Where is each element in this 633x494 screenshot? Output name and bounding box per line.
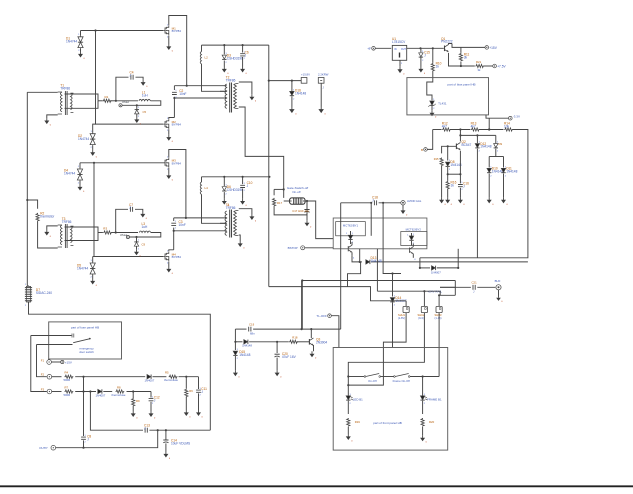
- svg-text:1N4007: 1N4007: [431, 271, 441, 275]
- svg-text:1N4007: 1N4007: [145, 379, 155, 383]
- svg-text:F2: F2: [41, 373, 45, 377]
- svg-text:R18: R18: [292, 336, 298, 340]
- svg-text:part of bias panel HB: part of bias panel HB: [447, 83, 475, 87]
- svg-text:1N4148: 1N4148: [371, 259, 382, 263]
- svg-text:BYP84: BYP84: [172, 255, 182, 259]
- svg-text:C9: C9: [142, 242, 146, 246]
- svg-text:1N4744: 1N4744: [78, 137, 89, 141]
- svg-text:1N4148: 1N4148: [242, 344, 252, 348]
- svg-text:BC547: BC547: [462, 143, 472, 147]
- svg-text:MCT62/BY1: MCT62/BY1: [343, 224, 359, 228]
- svg-text:L4: L4: [205, 186, 209, 190]
- svg-text:LED B1: LED B1: [353, 398, 363, 402]
- svg-text:On-off: On-off: [292, 190, 300, 194]
- svg-text:1N4744: 1N4744: [66, 39, 77, 43]
- svg-text:C21: C21: [472, 281, 478, 285]
- svg-text:(1-8V): (1-8V): [398, 316, 405, 320]
- svg-text:R7: R7: [65, 385, 69, 389]
- svg-text:F1: F1: [41, 359, 45, 363]
- svg-text:+F: +F: [367, 47, 371, 51]
- svg-text:1N4148: 1N4148: [480, 145, 491, 149]
- svg-text:R9: R9: [136, 399, 140, 403]
- svg-text:1N4148: 1N4148: [506, 169, 517, 173]
- svg-text:10uF VDLMS: 10uF VDLMS: [171, 441, 190, 445]
- svg-text:47uH: 47uH: [122, 100, 129, 104]
- svg-text:BYP84: BYP84: [172, 29, 182, 33]
- svg-text:TRF86: TRF86: [226, 206, 236, 210]
- svg-text:OUT: OUT: [401, 49, 406, 51]
- svg-text:CSHD3196: CSHD3196: [227, 188, 243, 192]
- svg-text:+15V: +15V: [489, 46, 497, 50]
- svg-text:R5: R5: [165, 371, 169, 375]
- svg-text:C19: C19: [249, 323, 255, 327]
- svg-text:TL-OFF: TL-OFF: [316, 314, 327, 318]
- svg-text:2N3904: 2N3904: [316, 340, 327, 344]
- svg-text:+15V: +15V: [65, 360, 72, 364]
- svg-text:R4: R4: [65, 371, 69, 375]
- svg-text:Frame On-Off: Frame On-Off: [393, 379, 410, 383]
- svg-text:BYP84: BYP84: [172, 123, 182, 127]
- svg-text:On-Off: On-Off: [368, 379, 377, 383]
- svg-text:1N4744: 1N4744: [64, 171, 75, 175]
- svg-text:part of front panel HB: part of front panel HB: [373, 421, 402, 425]
- svg-text:R20: R20: [429, 420, 435, 424]
- svg-text:AVDD GAL: AVDD GAL: [407, 199, 422, 203]
- svg-text:IN: IN: [394, 49, 397, 51]
- svg-text:500R: 500R: [64, 393, 71, 397]
- svg-text:BSTOP: BSTOP: [288, 246, 298, 250]
- svg-text:R21: R21: [476, 60, 482, 64]
- svg-text:F3: F3: [41, 387, 45, 391]
- svg-text:C17 HUF-AG: C17 HUF-AG: [292, 209, 309, 213]
- svg-text:SIDAC-240: SIDAC-240: [36, 291, 52, 295]
- svg-text:3k: 3k: [464, 55, 468, 59]
- svg-text:4k7: 4k7: [471, 124, 476, 128]
- svg-text:TRF86: TRF86: [62, 220, 72, 224]
- svg-text:-3.3V: -3.3V: [513, 114, 520, 118]
- svg-text:47uF 16V: 47uF 16V: [282, 355, 297, 359]
- svg-text:+7.5V: +7.5V: [497, 64, 506, 68]
- svg-text:1N4148: 1N4148: [239, 353, 250, 357]
- svg-text:C5: C5: [143, 110, 147, 114]
- svg-text:thermistor: thermistor: [40, 214, 55, 218]
- svg-text:R19: R19: [355, 420, 361, 424]
- svg-text:68n: 68n: [250, 332, 255, 336]
- svg-text:47uH: 47uH: [120, 233, 127, 237]
- svg-text:10k: 10k: [504, 124, 510, 128]
- svg-text:1N4148: 1N4148: [295, 91, 306, 95]
- svg-text:FRAME B1: FRAME B1: [427, 398, 442, 402]
- svg-text:1k: 1k: [451, 183, 455, 187]
- svg-text:(9-3): (9-3): [418, 316, 424, 320]
- svg-text:(1-16): (1-16): [435, 316, 442, 320]
- svg-text:part of fuse panel HB: part of fuse panel HB: [71, 325, 99, 329]
- svg-text:B: B: [421, 148, 423, 152]
- svg-text:TL431: TL431: [438, 102, 447, 106]
- svg-text:thermofuse: thermofuse: [164, 378, 178, 382]
- svg-text:BUF: BUF: [495, 279, 501, 283]
- svg-text:4k7: 4k7: [442, 124, 447, 128]
- svg-text:R6: R6: [189, 389, 193, 393]
- svg-text:10nF: 10nF: [179, 223, 186, 227]
- svg-text:TRF86: TRF86: [226, 78, 236, 82]
- svg-text:D9: D9: [499, 142, 503, 146]
- svg-text:1N4007: 1N4007: [96, 393, 106, 397]
- svg-text:500R: 500R: [64, 378, 71, 382]
- svg-text:L7815CV: L7815CV: [392, 40, 406, 44]
- svg-text:R8: R8: [117, 385, 121, 389]
- svg-text:1uH: 1uH: [142, 225, 149, 229]
- svg-text:R15: R15: [434, 157, 439, 161]
- svg-text:2.2KRW: 2.2KRW: [318, 73, 329, 77]
- svg-text:+15.8V: +15.8V: [301, 73, 310, 77]
- svg-text:OUTP: OUTP: [39, 446, 47, 450]
- svg-text:L2: L2: [205, 56, 209, 60]
- svg-text:R17: R17: [277, 201, 283, 205]
- svg-text:TRF86: TRF86: [60, 86, 70, 90]
- svg-text:1uH: 1uH: [142, 93, 149, 97]
- svg-text:CSHD3196: CSHD3196: [227, 56, 243, 60]
- svg-text:MCT62/BY2: MCT62/BY2: [406, 227, 422, 231]
- svg-text:thermofuse: thermofuse: [112, 393, 126, 397]
- svg-text:R3: R3: [103, 227, 107, 231]
- svg-text:R1: R1: [105, 95, 109, 99]
- svg-text:1N4744: 1N4744: [77, 266, 88, 270]
- svg-text:BYP84: BYP84: [172, 161, 182, 165]
- svg-text:door switch: door switch: [79, 350, 94, 354]
- svg-text:10nF: 10nF: [179, 92, 186, 96]
- svg-text:1k: 1k: [436, 64, 440, 68]
